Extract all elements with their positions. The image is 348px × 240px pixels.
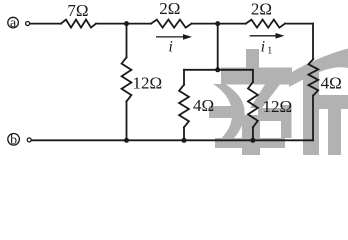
wire top left lead xyxy=(30,23,61,25)
watermark left char: upper horizontal bar xyxy=(221,68,292,85)
watermark left char: small horizontal bar xyxy=(209,106,238,118)
resistor R 2ohm second zigzag xyxy=(246,20,285,28)
resistor R 12ohm middle zigzag xyxy=(248,82,258,127)
node junction bottom left xyxy=(124,138,129,143)
node junction top left xyxy=(124,21,129,26)
watermark left char: bottom horizontal bar xyxy=(215,138,285,148)
watermark left char: top dot stroke xyxy=(246,49,259,68)
watermark left char: block under 12ohm label xyxy=(258,108,282,121)
node junction bottom mid xyxy=(182,138,187,143)
wire 4ohm mid top lead xyxy=(183,70,185,85)
svg-text:4Ω: 4Ω xyxy=(321,74,342,93)
resistor R 7ohm zigzag xyxy=(61,20,96,28)
wire mid horizontal xyxy=(184,69,253,71)
resistor R 12ohm left zigzag xyxy=(122,57,132,101)
wire 2ohm2 to right corner xyxy=(285,23,313,25)
wire 12ohm left top lead xyxy=(126,24,128,58)
svg-text:12Ω: 12Ω xyxy=(263,97,293,116)
current arrow i1 xyxy=(250,33,285,39)
wire 12ohm left bottom lead xyxy=(126,101,128,140)
svg-text:4Ω: 4Ω xyxy=(193,96,214,115)
wire bottom rail xyxy=(32,139,313,141)
svg-text:a: a xyxy=(10,16,17,31)
watermark left char: bottom vertical bar xyxy=(242,115,260,155)
watermark right char: top swoosh stroke xyxy=(289,49,348,88)
wire 7ohm to node1 xyxy=(96,23,151,25)
svg-text:b: b xyxy=(10,133,17,148)
terminal b open node xyxy=(27,138,31,142)
watermark right char: horizontal bar xyxy=(304,95,348,109)
node junction top right xyxy=(215,21,220,26)
resistor R 4ohm middle zigzag xyxy=(179,85,189,128)
resistor R 4ohm right zigzag xyxy=(308,59,318,96)
svg-text:2Ω: 2Ω xyxy=(251,0,272,18)
terminal a open node xyxy=(26,22,30,26)
svg-text:1: 1 xyxy=(267,46,272,57)
svg-text:i: i xyxy=(169,39,173,56)
wire node2 down to mid junction xyxy=(217,24,219,70)
watermark left char: curved left stroke xyxy=(213,84,245,143)
svg-text:i: i xyxy=(261,39,265,56)
terminal b circle xyxy=(8,134,20,146)
watermark left char: right diagonal stroke xyxy=(250,83,281,108)
watermark left char: right vertical bar xyxy=(281,105,292,138)
node junction bottom right xyxy=(250,138,255,143)
wire 12ohm mid top lead xyxy=(252,70,254,82)
resistor R 2ohm first zigzag xyxy=(151,20,192,28)
node junction middle xyxy=(215,67,220,72)
wire 2ohm1 to node2 xyxy=(192,23,246,25)
wire 12ohm mid bottom lead xyxy=(252,127,254,140)
terminal a circle xyxy=(8,17,19,28)
watermark right char: left vertical bar xyxy=(303,72,319,155)
wire right vertical top lead xyxy=(312,24,314,59)
wire right vertical bottom lead xyxy=(312,96,314,141)
wire 4ohm mid bottom lead xyxy=(183,127,185,140)
svg-text:12Ω: 12Ω xyxy=(133,73,163,92)
svg-text:7Ω: 7Ω xyxy=(67,1,88,20)
watermark right char: right vertical bar xyxy=(328,109,341,155)
current arrow i xyxy=(156,34,192,40)
svg-text:2Ω: 2Ω xyxy=(159,0,180,18)
